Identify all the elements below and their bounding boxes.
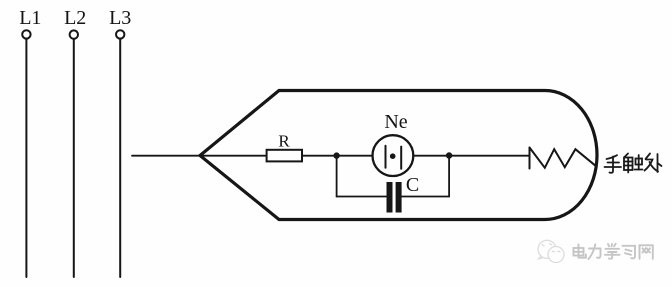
node junction right <box>446 152 452 158</box>
wire branch left vertical <box>336 156 338 197</box>
neon lamp Ne <box>373 135 414 176</box>
svg-text:L2: L2 <box>64 7 86 29</box>
node L1 terminal circle <box>22 30 30 38</box>
wire probe tip lead <box>132 155 267 157</box>
char 习 <box>623 246 636 259</box>
wire branch right vertical <box>448 156 450 197</box>
neon lamp dot <box>390 153 396 159</box>
wire lamp to spring <box>413 155 529 157</box>
capacitor C plate left <box>387 182 393 213</box>
node junction left <box>333 152 339 158</box>
node L3 terminal circle <box>116 30 124 38</box>
pencil body outline <box>200 91 597 220</box>
char 网 <box>640 245 653 258</box>
char 处 <box>645 154 662 173</box>
resistor R <box>267 150 302 162</box>
label shou-chu-chu (hand touch point) <box>605 154 662 173</box>
neon lamp electrode right <box>400 147 402 169</box>
svg-text:R: R <box>278 132 290 151</box>
spring resistor zigzag <box>530 148 596 168</box>
char 学 <box>605 244 620 259</box>
char 力 <box>589 244 601 259</box>
wire R to lamp <box>302 155 373 157</box>
char 电 <box>574 244 586 257</box>
wire branch bottom right <box>402 196 450 198</box>
char 触 <box>624 154 643 173</box>
wire branch bottom left <box>337 196 387 198</box>
wire L1 line <box>25 39 27 277</box>
svg-text:L1: L1 <box>19 7 41 29</box>
wire L3 line <box>119 39 121 277</box>
node L2 terminal circle <box>70 30 78 38</box>
neon lamp electrode left <box>385 146 387 168</box>
capacitor C plate right <box>396 182 402 213</box>
watermark logo icon <box>538 240 564 262</box>
char 手 <box>605 155 622 173</box>
wire L2 line <box>73 39 75 277</box>
svg-text:L3: L3 <box>109 7 131 29</box>
watermark text dian-li-xue-xi-wang <box>574 244 653 259</box>
svg-text:C: C <box>406 174 419 196</box>
spring resistor tick <box>529 148 531 169</box>
svg-text:Ne: Ne <box>384 111 407 133</box>
